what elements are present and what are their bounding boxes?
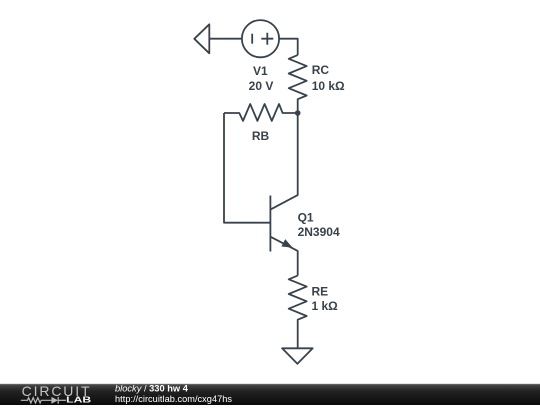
svg-text:http://circuitlab.com/cxg47hs: http://circuitlab.com/cxg47hs: [115, 394, 232, 404]
svg-text:RB: RB: [252, 129, 270, 143]
svg-text:20 V: 20 V: [249, 79, 274, 93]
svg-text:1 kΩ: 1 kΩ: [312, 299, 339, 313]
svg-text:2N3904: 2N3904: [298, 225, 340, 239]
svg-text:10 kΩ: 10 kΩ: [312, 79, 345, 93]
svg-text:Q1: Q1: [298, 210, 314, 224]
svg-text:V1: V1: [253, 64, 268, 78]
svg-text:blocky / 330 hw 4: blocky / 330 hw 4: [115, 384, 189, 394]
svg-text:RC: RC: [312, 63, 330, 77]
svg-text:LAB: LAB: [66, 396, 91, 405]
svg-text:RE: RE: [312, 284, 329, 298]
